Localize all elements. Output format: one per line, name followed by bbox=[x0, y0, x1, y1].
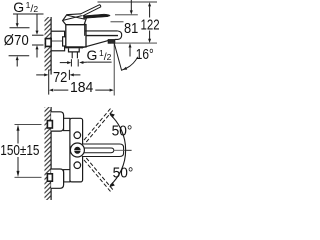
pipe elbow in wall bbox=[45, 39, 51, 47]
outlet callout bars bbox=[70, 59, 72, 66]
leader arrow to outlet left bbox=[60, 62, 68, 64]
16 degree arc bbox=[122, 57, 138, 70]
faucet body (plan) bbox=[70, 118, 83, 182]
nipple arrow up bbox=[36, 45, 39, 49]
extension line y=14.8 (blade level) bbox=[115, 14, 138, 16]
lower pipe elbow bbox=[47, 174, 52, 181]
shared extension bar for 72/184 bbox=[48, 70, 50, 95]
spout rounded tip bbox=[115, 31, 122, 39]
dimension 72 bbox=[36, 74, 45, 76]
lower screw bbox=[74, 162, 81, 169]
svg-text:50°: 50° bbox=[113, 165, 134, 182]
centerline stub bbox=[126, 149, 131, 151]
mid G1/2 underline bbox=[87, 61, 111, 63]
svg-text:122: 122 bbox=[141, 16, 160, 33]
lever knob facet 1 bbox=[63, 15, 84, 20]
extension line y=5 (lever tip level) bbox=[98, 1, 158, 3]
arrow up to Ø70 bottom bbox=[16, 56, 19, 60]
svg-text:Ø70: Ø70 bbox=[4, 31, 29, 48]
wall hatching (side view) bbox=[45, 17, 52, 71]
wall hatching (plan) bbox=[45, 107, 52, 200]
handle bar inner bbox=[84, 148, 114, 153]
union nut bbox=[63, 37, 70, 46]
short line left of 81 bbox=[111, 21, 124, 23]
pipe axis line bbox=[51, 40, 65, 42]
lever blade bbox=[84, 14, 111, 18]
arc arrowhead lower bbox=[109, 182, 115, 187]
nipple dimension arrow down (x=37) bbox=[36, 14, 38, 31]
nipple bottom tick bbox=[32, 44, 44, 46]
wall surface line bbox=[50, 17, 52, 75]
pivot ball bbox=[74, 147, 80, 150]
shower outlet tube bbox=[71, 52, 73, 58]
spout back vertical bbox=[84, 20, 86, 36]
upper screw bbox=[74, 132, 81, 139]
svg-text:50°: 50° bbox=[112, 123, 133, 140]
leader arrow to outlet right bbox=[83, 61, 87, 63]
dashed ray +50 (handle ghost, two edges) bbox=[86, 110, 113, 142]
escutcheon (side view) bbox=[51, 31, 65, 51]
dimension 81 top arrow bbox=[130, 0, 132, 11]
nipple top tick bbox=[32, 34, 44, 36]
spout top thick edge bbox=[86, 35, 119, 37]
spout upper edge line bbox=[85, 30, 118, 32]
dimension 122 line bbox=[148, 2, 151, 6]
arc arrowhead upper bbox=[109, 113, 115, 118]
G1/2 underline bbox=[13, 13, 44, 15]
outlet reference line y=43.1 bbox=[111, 42, 157, 44]
arc arrowhead at ray bbox=[123, 67, 128, 70]
wall surface line (plan) bbox=[50, 107, 52, 200]
16 degree vertical extension bbox=[113, 43, 115, 95]
svg-text:150±15: 150±15 bbox=[0, 142, 39, 159]
faucet body bbox=[66, 25, 86, 47]
mousseur (aerator) bbox=[108, 40, 115, 44]
lever grip rod bbox=[80, 5, 101, 16]
16 degree ray bbox=[114, 43, 122, 71]
svg-text:81: 81 bbox=[124, 19, 138, 36]
Ø70 top extension tick bbox=[10, 27, 30, 29]
svg-text:16°: 16° bbox=[136, 46, 154, 62]
upper union nut (plan) bbox=[64, 118, 70, 130]
lower union nut (plan) bbox=[64, 170, 70, 182]
lever knob bbox=[63, 14, 87, 25]
svg-text:72: 72 bbox=[53, 68, 67, 85]
arrow down to Ø70 top bbox=[16, 14, 18, 24]
dashed ray -50 (handle ghost, two edges) bbox=[86, 158, 113, 190]
dimension 81 bottom arrow bbox=[129, 43, 132, 47]
lever knob facet 2 bbox=[67, 15, 85, 19]
pivot circle bbox=[70, 143, 84, 157]
spout underside slant bbox=[83, 40, 109, 47]
lower escutcheon (plan) bbox=[51, 169, 64, 188]
swing arc bbox=[110, 114, 126, 185]
body bottom thick edge bbox=[65, 46, 83, 48]
handle bar outer bbox=[82, 144, 124, 157]
centerline through spout bbox=[114, 149, 126, 151]
upper pipe elbow bbox=[47, 121, 52, 128]
shower outlet stub bbox=[69, 48, 80, 52]
svg-text:184: 184 bbox=[70, 80, 93, 96]
dimension 150±15 bbox=[15, 123, 42, 125]
Ø70 bottom extension tick bbox=[9, 55, 30, 57]
upper escutcheon (plan) bbox=[51, 112, 64, 131]
